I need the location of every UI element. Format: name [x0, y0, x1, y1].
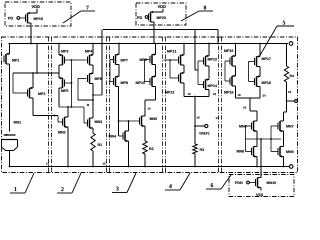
node 24 label [263, 95, 266, 97]
node B bar [78, 99, 93, 101]
VREF2 tap wire [287, 100, 295, 102]
callout 1 [10, 192, 25, 194]
separator blocks 3/4 [162, 37, 164, 173]
transistor MP6 [88, 72, 94, 83]
VDD stub [162, 9, 164, 12]
junction dots [153, 29, 155, 31]
R4 top wire [286, 44, 288, 67]
VREF1 tap wire [195, 125, 205, 127]
MP7/MP8 gate column [110, 59, 114, 61]
PDN terminal [247, 181, 250, 184]
block 8 box [136, 3, 186, 25]
MP17 source wire [259, 44, 261, 57]
MP10 drain wire [155, 87, 157, 101]
rail corner x37 down [36, 44, 38, 74]
MN3 gate drop [83, 107, 85, 123]
resistor R4 [284, 66, 288, 82]
MP2 source wire [32, 73, 34, 88]
MP3-MP4 gate bus [65, 59, 87, 61]
MP13 source wire [208, 44, 210, 57]
node 19 label right [288, 91, 291, 93]
ground rail [10, 166, 290, 168]
MN3 source to R1 [92, 128, 94, 133]
MN5 source to R2 [144, 126, 146, 141]
callout 5 [259, 26, 277, 57]
MN4 drain wire [128, 121, 130, 131]
MP15 label [224, 50, 233, 53]
PDN label [235, 182, 242, 184]
MP4 label [85, 50, 92, 52]
MP10 label [136, 81, 145, 84]
node 12 label [103, 163, 106, 165]
MN8 gate drop [246, 151, 252, 153]
MP16 drain wire [235, 86, 237, 98]
transistor MP7 [114, 53, 120, 64]
transistor MP10 [150, 75, 156, 86]
MP2 label [38, 92, 45, 95]
transistor MN7 [278, 121, 284, 132]
MP12 drain wire [183, 83, 185, 97]
MP9 drain to MP10 source [155, 65, 157, 77]
MN6 drain wire [256, 111, 258, 121]
MP18 drain wire [259, 87, 261, 99]
transistor MP17 [255, 55, 261, 66]
MN7 source to MN9 drain [283, 131, 285, 147]
MP12 label [165, 91, 174, 94]
transistor MP11 [179, 54, 185, 65]
MP5 gate lead [65, 82, 72, 84]
MN2 gate feed [58, 121, 63, 123]
separator blocks 1/2 [48, 37, 50, 173]
MP11 gate feed from block 3 [164, 59, 179, 61]
MN3 label [95, 120, 102, 123]
MN5 label [150, 118, 157, 121]
MN8 source wire [256, 157, 258, 167]
resistor R3 [193, 144, 197, 154]
transistor MN4 [123, 131, 129, 142]
transistor MP15 [230, 55, 236, 66]
MN1 stem [9, 151, 11, 167]
transistor MN6 [252, 121, 258, 132]
bar drop [249, 98, 251, 111]
transistor MN9 [278, 147, 284, 158]
MN4 gate lead [119, 135, 124, 137]
PD label [137, 16, 142, 19]
link bus y107 [59, 106, 84, 108]
MN9 label [286, 150, 293, 153]
MN4 source wire [128, 141, 130, 167]
MN7 label [286, 125, 293, 127]
transistor MP3 [59, 54, 65, 65]
MP3 drain to MP5 source [58, 65, 60, 78]
transistor MP14 [204, 78, 210, 89]
MP9 label [140, 58, 147, 61]
MP6 label [95, 77, 102, 80]
transistor MP16 [230, 75, 236, 86]
feed drop x218 [217, 30, 219, 44]
node bar y98 [236, 97, 261, 99]
MP7 source wire [118, 44, 120, 55]
tail bus y139 [246, 138, 282, 140]
output terminal top right [289, 42, 293, 46]
transistor MP12 [179, 72, 185, 83]
MP16 label [224, 91, 233, 94]
MP11/MP12 gate column [169, 60, 171, 78]
MP2 gate wire [13, 92, 28, 94]
tail column to MN10 [260, 139, 262, 178]
MN7 gate drop [271, 125, 278, 127]
transistor MP9 [150, 53, 156, 64]
node 16 label [238, 94, 241, 96]
callout 3 [112, 192, 127, 194]
MN10 source wire [260, 188, 262, 191]
MP15 source wire [235, 44, 237, 57]
MN6 gate drop [246, 125, 252, 127]
separator blocks 4/5 [218, 37, 220, 173]
VDD label block 8 [158, 5, 166, 8]
VDD rail [9, 43, 289, 45]
feed wire y29.5 [103, 29, 218, 31]
MP7 drain to MP8 source [118, 65, 120, 77]
transistor MP8 [114, 75, 120, 86]
wire MP19 drain to rail [30, 23, 32, 44]
MP4 source wire [92, 44, 94, 56]
transistor MP5 [59, 77, 65, 88]
transistor MN2 [63, 117, 69, 128]
MN6 label [239, 125, 246, 128]
PD terminal [145, 16, 148, 19]
MP1 label [12, 59, 19, 61]
main band dash-dot border [2, 37, 298, 173]
resistor R2 [143, 141, 147, 154]
MN10 label [267, 181, 276, 184]
transistor MP19 [26, 12, 32, 23]
MN9 gate drop [271, 151, 278, 153]
node 19 label [243, 107, 246, 109]
block 6 box [229, 175, 294, 197]
separator blocks 2/3 [106, 37, 108, 173]
PD terminal [17, 17, 20, 20]
MP11 source wire [183, 44, 185, 56]
MP13 drain to MP14 source [208, 66, 210, 80]
MN6 source to MN8 drain [256, 131, 258, 147]
transistor MP18 [255, 75, 261, 86]
MP18 label [262, 81, 271, 84]
callout 8 [181, 11, 199, 21]
transistor MN1 (MOS capacitor) [2, 134, 18, 151]
node 15 label [148, 108, 151, 110]
MN9 source wire [283, 157, 285, 167]
transistor MN8 [252, 147, 258, 158]
callout 4 [165, 189, 180, 191]
MP13/MP14 gate column [198, 60, 204, 62]
transistor MP13 [204, 55, 210, 66]
output terminal bottom right [289, 165, 293, 169]
transistor MP2 [28, 87, 34, 98]
transistor MN10 [256, 178, 262, 189]
MN1 label [14, 121, 21, 123]
node B label [87, 104, 89, 106]
MP9 source wire [155, 44, 157, 55]
MN8 label [237, 150, 244, 153]
MP11 drain to MP12 source [183, 65, 185, 73]
node 19 label [197, 117, 200, 119]
callout 6 [206, 188, 221, 190]
MP3 source wire [58, 44, 60, 56]
MN5 drain wire [144, 100, 146, 116]
MN2 source wire [67, 127, 69, 167]
MP7 label [121, 59, 128, 61]
VDD stub [36, 9, 38, 13]
feed drop x195 [194, 30, 196, 71]
link x195-x198 [195, 69, 198, 71]
MN2 drain wire [67, 107, 69, 117]
wire PD-MP20 gate [147, 16, 150, 18]
MP19 label [34, 17, 43, 20]
MP17 label [262, 58, 271, 60]
R3 label [200, 148, 204, 151]
block 7 box [5, 2, 71, 26]
startup injection link [93, 94, 102, 96]
MP17/MP18 gate column [249, 61, 255, 63]
PD label [8, 17, 13, 20]
R4 bottom wire [286, 82, 288, 112]
MN4 label [109, 135, 116, 137]
R1 to ground [92, 151, 94, 167]
node 17 label [216, 117, 219, 119]
transistor MP1 [4, 53, 10, 64]
MP20 label [157, 16, 166, 19]
VREF2 terminal [295, 100, 298, 103]
transistor MN5 [140, 116, 146, 127]
gate link column x13 [12, 73, 14, 93]
feed drop x102 [101, 30, 103, 96]
MP15 drain to MP16 source [235, 66, 237, 76]
callout 2 [57, 192, 72, 194]
VREF1 terminal [205, 124, 208, 127]
wire MP20 drain to rail [153, 22, 155, 44]
MP2 drain wire to MN2 gate [32, 98, 34, 116]
MN2 label [58, 131, 65, 134]
MP11 label [167, 50, 176, 52]
VREF1 label [199, 132, 210, 134]
resistor R1 [91, 133, 95, 151]
wire PD-MP19 gate [20, 17, 26, 19]
R1 label [98, 144, 102, 146]
VSS label [256, 193, 263, 196]
gate column x71.5 [71, 60, 73, 107]
node wire y73 [13, 72, 59, 74]
R2 to ground [144, 154, 146, 167]
arrow into block 2 [54, 114, 57, 117]
MP6 drain wire [92, 84, 94, 101]
node 16 label [213, 93, 216, 95]
MP1 source wire [9, 44, 11, 55]
MP6 gate drop [78, 78, 87, 80]
R2 label [149, 147, 153, 150]
transistor MP20 [149, 11, 155, 22]
MP5 label [61, 90, 68, 93]
VREF column [194, 97, 196, 145]
MP17 drain to MP18 source [259, 67, 261, 77]
node 11 label [46, 163, 49, 165]
MP14 drain wire [208, 90, 210, 97]
MP3 label [61, 50, 68, 53]
MP9/MP10 gate column [145, 59, 151, 61]
VDD label block 7 [32, 5, 40, 8]
node 15 label [188, 93, 191, 95]
MP1 drain wire [9, 64, 11, 132]
transistor MP4 [88, 54, 94, 65]
ground rail junction dots [9, 166, 11, 168]
R3 to ground [194, 154, 196, 167]
node bar y96.5 [184, 96, 209, 98]
MP8 drain column [118, 87, 120, 137]
R4 label [290, 75, 294, 77]
MN3 drain wire [92, 100, 94, 118]
transistor MN3 [88, 118, 94, 129]
MN5 gate wire [119, 120, 140, 122]
MP14 label [208, 85, 217, 87]
MP15/MP16 gate column [225, 60, 230, 62]
wire PDN-MN10 gate [249, 182, 255, 184]
MN7 drain link [284, 111, 287, 113]
callout 7 [63, 11, 81, 23]
MP13 label [208, 58, 217, 61]
MP4 drain to MP6 source [92, 65, 94, 74]
MP8 label [121, 81, 128, 84]
MP5 drain column [58, 88, 60, 107]
